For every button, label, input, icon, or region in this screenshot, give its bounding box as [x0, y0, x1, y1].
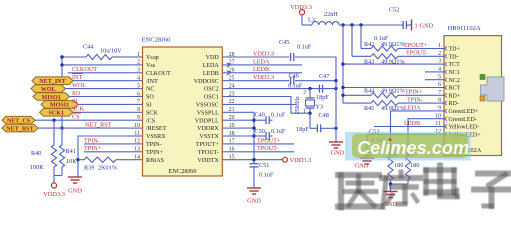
svg-text:10K: 10K — [66, 158, 77, 165]
wire C52 right — [406, 24, 411, 26]
svg-text:0.1uF: 0.1uF — [259, 172, 274, 179]
svg-text:49.9Ω1%: 49.9Ω1% — [381, 41, 405, 48]
svg-text:12: 12 — [134, 139, 140, 145]
resistor R41 — [61, 128, 63, 145]
svg-text:Celimes.com: Celimes.com — [357, 138, 469, 158]
U1 pin 19 VDDRX — [222, 127, 237, 129]
capacitor C51 — [250, 163, 259, 165]
svg-text:5: 5 — [137, 83, 140, 89]
watermark green box — [352, 134, 468, 159]
svg-text:0.1uF: 0.1uF — [271, 128, 286, 135]
svg-text:1·GND: 1·GND — [415, 23, 434, 30]
J1 pin 2 TD- — [432, 55, 444, 57]
wire VDDPLL — [237, 119, 254, 121]
svg-text:10: 10 — [134, 123, 140, 129]
junction C47 rail — [334, 87, 337, 90]
crystal Y3 — [309, 89, 311, 98]
svg-text:C51: C51 — [259, 162, 269, 169]
U1 pin 23 OSC1 — [222, 96, 237, 98]
U1 pin 28 VDD — [222, 56, 237, 58]
svg-text:28: 28 — [229, 52, 235, 58]
J1 pin 7 RD+ — [432, 94, 444, 96]
junction R44 — [341, 94, 344, 97]
svg-text:VDD3.3: VDD3.3 — [253, 50, 274, 57]
svg-text:VDD3.3: VDD3.3 — [290, 157, 312, 164]
gnd rail crystal — [335, 81, 337, 142]
junction C44 corner — [60, 55, 63, 58]
svg-text:LEDB: LEDB — [404, 120, 420, 127]
svg-text:17: 17 — [229, 139, 235, 145]
wire TPIN- — [84, 143, 128, 145]
U1 pin 11 VSSRX — [128, 135, 143, 137]
svg-text:TPOUT+: TPOUT+ — [404, 42, 428, 49]
wire C48 to rail — [321, 127, 336, 129]
svg-text:18pF: 18pF — [296, 126, 309, 133]
svg-text:9: 9 — [137, 115, 140, 121]
svg-text:9: 9 — [438, 106, 441, 112]
svg-text:MOSI1: MOSI1 — [50, 103, 69, 109]
svg-text:OSC1: OSC1 — [204, 95, 219, 101]
svg-text:11: 11 — [134, 131, 140, 137]
wire NC2 stub — [425, 79, 432, 81]
wire GreenLED- — [408, 119, 432, 156]
svg-text:VDD3.3: VDD3.3 — [253, 74, 274, 81]
svg-text:GND: GND — [68, 188, 82, 195]
svg-text:6: 6 — [137, 91, 140, 97]
wire C45 to gnd rail — [295, 57, 336, 81]
svg-text:7: 7 — [137, 99, 140, 105]
wire LEDB chip — [237, 72, 302, 74]
svg-text:SI: SI — [146, 103, 151, 109]
svg-text:VDDTX: VDDTX — [197, 158, 219, 164]
U1 pin 26 LEDB — [222, 72, 237, 74]
wire OSC1 jog — [237, 97, 310, 114]
svg-text:C48: C48 — [319, 112, 329, 119]
wire NC1 stub — [425, 71, 432, 73]
svg-text:49.9Ω1%: 49.9Ω1% — [381, 88, 405, 95]
wire TPOUT- chip — [237, 151, 294, 153]
wire NET_CS — [35, 119, 128, 121]
U1 pin 3 CLKOUT — [128, 72, 143, 74]
capacitor C50 — [254, 135, 266, 137]
capacitor C49 — [254, 119, 266, 121]
junction vssrail 18 — [252, 134, 255, 137]
svg-text:VDDRX: VDDRX — [197, 126, 219, 132]
junction gnd rail top — [334, 79, 337, 82]
svg-text:CS: CS — [72, 114, 80, 121]
svg-text:MISO1: MISO1 — [42, 95, 61, 101]
svg-text:23: 23 — [229, 91, 235, 97]
svg-text:VDD: VDD — [206, 55, 220, 61]
svg-text:INT: INT — [72, 74, 83, 81]
wire TPIN+ — [84, 151, 128, 153]
svg-text:SCK1: SCK1 — [48, 111, 64, 117]
svg-text:VDDPLL: VDDPLL — [195, 118, 219, 124]
svg-text:19: 19 — [229, 123, 235, 129]
port SCK1 — [40, 109, 74, 117]
J1 pin 9 GreenLED+ — [432, 110, 444, 112]
svg-text:ENC28J60: ENC28J60 — [168, 168, 196, 175]
svg-text:7: 7 — [438, 90, 441, 96]
junction R46 R47 — [389, 182, 392, 185]
U1 pin 18 VSSTX — [222, 135, 237, 137]
svg-text:TCT: TCT — [449, 62, 461, 68]
wire Vss pin2 — [62, 64, 128, 66]
svg-text:CLKOUT: CLKOUT — [72, 66, 97, 73]
wire VSSRX — [78, 136, 128, 177]
svg-text:OSC2: OSC2 — [204, 87, 219, 93]
wire VDDRX — [237, 127, 254, 129]
power VDD3.3 bottom left — [51, 183, 56, 188]
svg-text:HR911102A: HR911102A — [448, 25, 481, 32]
U1 pin 27 LEDA — [222, 64, 237, 66]
U1 pin 15 VDDTX — [222, 159, 237, 161]
resistor R47 — [405, 156, 410, 180]
junction N1 b — [350, 23, 353, 26]
wire SCK — [73, 111, 128, 113]
U1 pin 17 TPOUT+ — [222, 143, 237, 145]
wire R40 R41 join — [54, 175, 62, 177]
svg-text:100K: 100K — [30, 164, 44, 171]
wire LEDA hr — [391, 111, 433, 156]
svg-text:C44: C44 — [83, 44, 93, 51]
svg-text:LEDA: LEDA — [203, 63, 220, 69]
U1 pin 22 VSSOSC — [222, 103, 237, 105]
wire SI — [78, 103, 128, 105]
ground GND C53 — [366, 156, 368, 158]
svg-text:R45: R45 — [364, 105, 374, 112]
svg-text:R39: R39 — [84, 165, 94, 172]
wire C46 to gnd rail — [295, 80, 336, 82]
junction vssrail 20 — [252, 119, 255, 122]
resistor R46 — [388, 156, 393, 180]
wire VSSOSC — [237, 103, 296, 105]
svg-text:LEDA: LEDA — [253, 58, 270, 65]
svg-text:Vss: Vss — [146, 63, 156, 69]
J1 pin 6 RCT — [432, 87, 444, 89]
port MISO1 — [33, 93, 70, 101]
svg-text:Vcap: Vcap — [146, 55, 159, 61]
wire VDDOSC row — [237, 80, 289, 82]
junction NET_RST R41 — [60, 126, 63, 129]
svg-text:8: 8 — [137, 107, 140, 113]
port MOSI1 — [41, 101, 78, 109]
U1 pin 21 VSSPLL — [222, 111, 237, 113]
svg-text:NET_CS: NET_CS — [7, 119, 31, 125]
svg-text:WOL: WOL — [41, 87, 56, 93]
svg-text:SO: SO — [146, 95, 154, 101]
svg-text:ENC28J60: ENC28J60 — [142, 37, 172, 44]
watermark band — [345, 132, 471, 161]
svg-text:NC1: NC1 — [449, 70, 460, 76]
overline INT — [72, 73, 83, 75]
svg-text:10u/10V: 10u/10V — [100, 48, 122, 55]
junction crystal bottom — [308, 112, 311, 115]
svg-text:1: 1 — [438, 43, 441, 49]
svg-text:NET_RST: NET_RST — [6, 126, 33, 132]
junction R39 — [76, 158, 79, 161]
svg-text:VSSRX: VSSRX — [146, 134, 166, 140]
svg-text:YellowLED-: YellowLED- — [449, 125, 480, 131]
inductor L3 — [302, 24, 312, 26]
resistor R39 — [84, 157, 116, 162]
power VDD3.3 pin15 — [283, 157, 288, 162]
svg-text:3: 3 — [137, 68, 140, 74]
svg-text:6: 6 — [438, 82, 441, 88]
svg-text:1: 1 — [303, 109, 306, 115]
svg-text:NET_RST: NET_RST — [85, 122, 112, 129]
wire VSSTX — [237, 135, 254, 137]
J1 pin 5 NC2 — [432, 79, 444, 81]
resistor R44 — [343, 94, 371, 96]
wire YellowLED+ — [367, 134, 432, 152]
svg-text:WOL: WOL — [72, 82, 86, 89]
svg-text:TPOUT+: TPOUT+ — [257, 137, 281, 144]
overline CS — [72, 112, 81, 114]
svg-text:SCK: SCK — [72, 106, 85, 113]
svg-text:TPIN-: TPIN- — [146, 142, 162, 148]
svg-text:4: 4 — [137, 76, 140, 82]
U1 pin 6 SO — [128, 96, 143, 98]
svg-text:25: 25 — [229, 76, 235, 82]
svg-text:180: 180 — [410, 162, 419, 169]
svg-text:TPOUT-: TPOUT- — [198, 150, 219, 156]
junction Vss — [60, 63, 63, 66]
svg-text:SO: SO — [72, 90, 80, 97]
svg-text:18: 18 — [229, 131, 235, 137]
svg-text:C46: C46 — [289, 73, 299, 80]
svg-text:2K01%: 2K01% — [98, 165, 117, 172]
svg-text:RD-: RD- — [449, 101, 459, 107]
svg-text:TPIN+: TPIN+ — [405, 89, 423, 96]
U1 pin 9 /CS — [128, 119, 143, 121]
IC U1 ENC28J60 body — [143, 47, 223, 176]
capacitor C52 — [402, 21, 404, 29]
wire RCT — [343, 87, 432, 89]
svg-text:C45: C45 — [279, 39, 289, 46]
svg-text:GreenLED-: GreenLED- — [449, 117, 477, 123]
svg-text:TD+: TD+ — [449, 47, 461, 53]
svg-text:5: 5 — [438, 74, 441, 80]
U1 pin 12 TPIN- — [128, 143, 143, 145]
ground GND leds — [390, 184, 392, 191]
svg-text:GND: GND — [355, 163, 369, 170]
ground GND C51 — [247, 187, 261, 189]
svg-text:C52: C52 — [389, 7, 399, 14]
svg-text:GND: GND — [331, 150, 345, 157]
svg-text:NET_INT: NET_INT — [39, 79, 65, 85]
wire pin1 to C44 — [112, 56, 128, 58]
wire VDD row — [237, 56, 289, 58]
J1 pin 4 NC1 — [432, 71, 444, 73]
connector J1 jack graphic — [481, 77, 505, 101]
J1 pin 11 YellowLED- — [432, 126, 444, 128]
svg-text:13: 13 — [134, 147, 140, 153]
U1 pin 13 TPIN+ — [128, 151, 143, 153]
wire OSC2 row — [237, 88, 336, 90]
svg-text:VSSTX: VSSTX — [199, 134, 219, 140]
svg-text:0.1uF: 0.1uF — [297, 44, 312, 51]
svg-text:0.1uF: 0.1uF — [271, 112, 286, 119]
svg-text:RCT: RCT — [449, 86, 461, 92]
svg-text:CLKOUT: CLKOUT — [146, 71, 171, 77]
svg-text:15: 15 — [229, 155, 235, 161]
capacitor C53 — [362, 152, 372, 154]
J1 pin 1 TD+ — [432, 48, 444, 50]
svg-text:TPIN+: TPIN+ — [84, 145, 102, 152]
wire LEDA chip — [237, 64, 302, 66]
J1 pin 12 YellowLED+ — [432, 133, 444, 135]
port WOL — [31, 85, 66, 93]
vert R43 feed — [351, 25, 353, 56]
svg-text:LEDB: LEDB — [203, 71, 219, 77]
U1 pin 20 VDDPLL — [222, 119, 237, 121]
U1 pin 4 /INT — [128, 80, 143, 82]
svg-text:22: 22 — [229, 99, 235, 105]
svg-text:18pF: 18pF — [316, 94, 329, 101]
U1 pin 14 RBIAS — [128, 159, 143, 161]
wire SO — [70, 96, 128, 98]
svg-text:24: 24 — [229, 83, 235, 89]
wire C44 left — [62, 57, 86, 128]
svg-text:TPIN-: TPIN- — [407, 97, 423, 104]
svg-text:/INT: /INT — [146, 79, 158, 85]
resistor R42 — [361, 48, 371, 50]
wire node N1 — [339, 24, 403, 26]
svg-text:RBIAS: RBIAS — [146, 158, 165, 164]
wire TCT — [343, 63, 432, 65]
U1 pin 2 Vss — [128, 64, 143, 66]
capacitor C48 — [316, 124, 318, 132]
svg-text:VDDOSC: VDDOSC — [194, 79, 219, 85]
svg-text:SI: SI — [72, 98, 78, 105]
svg-text:TPIN-: TPIN- — [84, 137, 100, 144]
svg-text:C49: C49 — [255, 112, 265, 119]
watermark i dot — [388, 138, 391, 141]
junction C48 rail — [334, 127, 337, 130]
U1 pin 24 OSC2 — [222, 88, 237, 90]
svg-text:Y3: Y3 — [316, 104, 324, 111]
svg-text:14: 14 — [134, 155, 140, 161]
svg-text:VSSOSC: VSSOSC — [196, 103, 219, 109]
U1 pin 8 SCK — [128, 111, 143, 113]
svg-text:C50: C50 — [255, 128, 265, 135]
svg-text:GreenLED+: GreenLED+ — [449, 109, 479, 115]
wire CLKOUT — [68, 72, 128, 74]
port NET_RST — [2, 124, 38, 132]
capacitor C45 — [290, 53, 292, 61]
chinese watermark text — [338, 165, 511, 208]
J1 pin 8 RD- — [432, 102, 444, 104]
wire crystal to C48 — [309, 113, 311, 128]
svg-text:VSSPLL: VSSPLL — [197, 110, 219, 116]
capacitor C46 — [290, 77, 292, 85]
J1 pin 10 GreenLED- — [432, 118, 444, 120]
resistor R45 — [343, 102, 371, 104]
svg-text:2: 2 — [438, 51, 441, 57]
junction RCT — [341, 86, 344, 89]
J1 pin 3 TCT — [432, 63, 444, 65]
wire VDDTX — [237, 159, 282, 161]
junction crystal top — [308, 87, 311, 90]
svg-text:NC2: NC2 — [449, 78, 460, 84]
svg-text:R42: R42 — [364, 41, 374, 48]
vss rail — [237, 112, 254, 163]
wire WOL — [66, 88, 128, 90]
U1 pin 1 Vcap — [128, 56, 143, 58]
capacitor C44 — [86, 54, 112, 59]
svg-text:8: 8 — [438, 98, 441, 104]
svg-text:2: 2 — [137, 60, 140, 66]
vert TCT rail — [342, 25, 344, 103]
svg-text:LEDB: LEDB — [253, 66, 269, 73]
svg-text:21: 21 — [229, 107, 235, 113]
svg-text:NC: NC — [146, 87, 154, 93]
junction N1 c — [359, 23, 362, 26]
svg-text:16: 16 — [229, 147, 235, 153]
port NET_CS — [2, 116, 35, 124]
svg-text:VDD3.3: VDD3.3 — [43, 191, 65, 198]
svg-text:/RESET: /RESET — [146, 126, 167, 132]
junction vssrail 19 — [252, 126, 255, 129]
U1 pin 10 /RESET — [128, 127, 143, 129]
svg-text:22nH: 22nH — [324, 11, 338, 18]
svg-text:GND: GND — [247, 198, 261, 205]
power port 1-GND — [411, 20, 413, 31]
wire INT — [73, 80, 128, 82]
ground GND crystal — [329, 141, 343, 143]
svg-text:RD+: RD+ — [449, 93, 461, 99]
svg-text:20: 20 — [229, 115, 235, 121]
resistor R43 — [352, 55, 371, 57]
svg-text:10: 10 — [435, 113, 441, 119]
svg-text:C47: C47 — [319, 73, 329, 80]
svg-text:SCK: SCK — [146, 110, 158, 116]
svg-text:R41: R41 — [66, 148, 76, 155]
svg-text:TD-: TD- — [449, 54, 459, 60]
U1 pin 25 VDDOSC — [222, 80, 237, 82]
svg-text:11: 11 — [435, 121, 441, 127]
svg-text:LEDA: LEDA — [404, 104, 421, 111]
svg-text:TPIN+: TPIN+ — [146, 150, 164, 156]
junction C51 — [252, 158, 255, 161]
connector J1 HR911102A body — [444, 36, 502, 156]
svg-text:R40: R40 — [31, 150, 41, 157]
svg-text:TPOUT+: TPOUT+ — [196, 142, 220, 148]
svg-text:3: 3 — [438, 59, 441, 65]
svg-text:L3: L3 — [308, 17, 315, 24]
junction N1 a — [341, 23, 344, 26]
wire NET_RST — [38, 127, 128, 129]
svg-text:180: 180 — [394, 162, 403, 169]
svg-text:4: 4 — [438, 67, 441, 73]
junction TCT — [341, 62, 344, 65]
svg-text:TPOUT-: TPOUT- — [406, 50, 427, 57]
resistor R40 — [53, 120, 55, 145]
junction NET_CS R40 — [52, 119, 55, 122]
port NET_INT — [32, 77, 73, 85]
svg-text:/CS: /CS — [146, 118, 156, 124]
wire TPOUT+ chip — [237, 143, 294, 145]
svg-text:R44: R44 — [364, 88, 374, 95]
svg-text:TPOUT-: TPOUT- — [257, 145, 278, 152]
wire LEDB hr — [374, 126, 432, 128]
svg-text:1: 1 — [137, 52, 140, 58]
svg-text:2: 2 — [303, 90, 306, 96]
U1 pin 7 SI — [128, 103, 143, 105]
ground GND left — [68, 176, 82, 178]
vert R42 feed — [360, 25, 362, 49]
